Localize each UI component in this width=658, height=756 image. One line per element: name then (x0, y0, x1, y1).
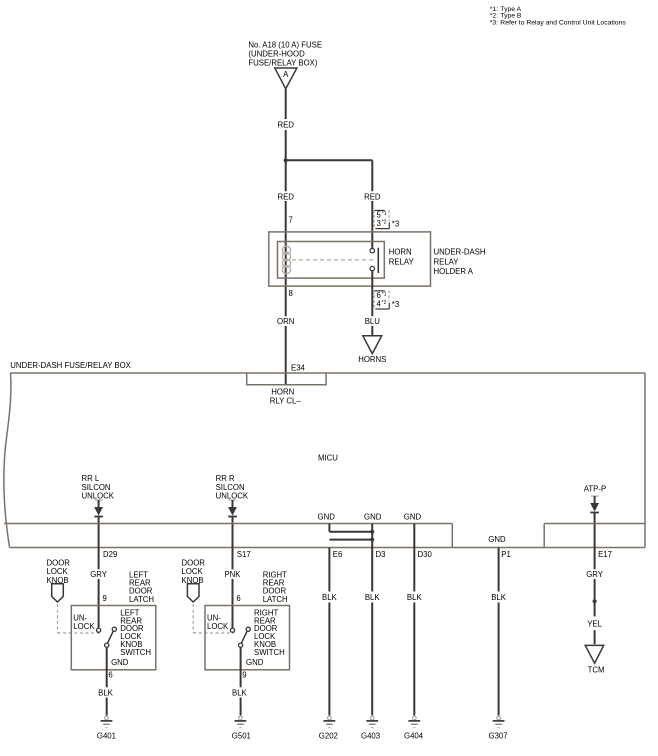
svg-text:G403: G403 (361, 732, 380, 741)
svg-text:TCM: TCM (588, 666, 605, 675)
svg-text:6: 6 (108, 671, 112, 680)
svg-text:D30: D30 (418, 550, 433, 559)
svg-text:RR R: RR R (216, 474, 235, 483)
svg-text:A: A (283, 70, 289, 79)
svg-text:UNLOCK: UNLOCK (82, 492, 115, 501)
svg-text:YEL: YEL (587, 619, 602, 628)
svg-text:LATCH: LATCH (129, 595, 154, 604)
svg-text:6: 6 (236, 594, 240, 603)
svg-text:HORN: HORN (389, 248, 412, 257)
svg-text:SILCON: SILCON (216, 483, 245, 492)
svg-text:RED: RED (277, 120, 294, 129)
svg-text:*3: *3 (392, 300, 399, 309)
svg-text:UNDER-DASH: UNDER-DASH (434, 248, 486, 257)
svg-text:G404: G404 (404, 732, 424, 741)
svg-text:LOCK: LOCK (73, 622, 95, 631)
svg-text:GRY: GRY (90, 570, 108, 579)
svg-text:9: 9 (242, 671, 246, 680)
svg-text:No. A18 (10 A) FUSE: No. A18 (10 A) FUSE (248, 40, 322, 49)
svg-text:GND: GND (488, 535, 506, 544)
svg-text:*2: *2 (382, 220, 387, 226)
svg-text:SWITCH: SWITCH (254, 648, 285, 657)
svg-text:SWITCH: SWITCH (120, 648, 151, 657)
svg-text:ORN: ORN (277, 317, 294, 326)
svg-text:UNDER-DASH FUSE/RELAY BOX: UNDER-DASH FUSE/RELAY BOX (10, 361, 131, 370)
svg-text:8: 8 (289, 289, 293, 298)
svg-text:*2: *2 (382, 300, 387, 306)
svg-text:3: 3 (377, 219, 381, 228)
svg-text:E17: E17 (598, 550, 612, 559)
svg-text:(UNDER-HOOD: (UNDER-HOOD (248, 49, 305, 58)
svg-text:*3: *3 (392, 220, 399, 229)
svg-text:GND: GND (318, 513, 336, 522)
svg-text:BLK: BLK (491, 593, 507, 602)
svg-text:BLK: BLK (322, 593, 338, 602)
svg-text:Refer to Relay and Control Uni: Refer to Relay and Control Unit Location… (500, 19, 626, 26)
svg-text:G401: G401 (97, 732, 116, 741)
svg-text:G202: G202 (319, 732, 338, 741)
svg-text:LOCK: LOCK (182, 567, 204, 576)
svg-text:HORNS: HORNS (358, 355, 386, 364)
svg-text:*1: *1 (382, 211, 387, 217)
svg-text:D29: D29 (103, 550, 117, 559)
svg-text:GND: GND (364, 513, 382, 522)
svg-text:RLY CL–: RLY CL– (270, 397, 302, 406)
svg-text:E34: E34 (291, 363, 306, 372)
svg-text:BLU: BLU (365, 317, 381, 326)
svg-text:*1: *1 (382, 292, 387, 298)
svg-text:GND: GND (111, 658, 129, 667)
svg-text:LATCH: LATCH (263, 595, 288, 604)
svg-text:BLK: BLK (407, 593, 423, 602)
svg-text:D3: D3 (376, 550, 386, 559)
svg-text:4: 4 (377, 299, 382, 308)
svg-text:*3:: *3: (490, 19, 498, 26)
svg-text:E6: E6 (333, 550, 343, 559)
svg-text:MICU: MICU (318, 454, 338, 463)
svg-text:RELAY: RELAY (389, 257, 415, 266)
svg-text:LOCK: LOCK (47, 567, 69, 576)
svg-text:UNLOCK: UNLOCK (216, 492, 249, 501)
svg-text:BLK: BLK (365, 593, 381, 602)
svg-text:GRY: GRY (586, 570, 604, 579)
svg-text:DOOR: DOOR (47, 558, 71, 567)
svg-text:FUSE/RELAY BOX): FUSE/RELAY BOX) (248, 58, 317, 67)
svg-text:7: 7 (289, 216, 293, 225)
svg-text:GND: GND (404, 513, 422, 522)
svg-text:G501: G501 (232, 732, 251, 741)
svg-text:HOLDER A: HOLDER A (434, 267, 474, 276)
svg-text:DOOR: DOOR (182, 558, 206, 567)
svg-text:UN-: UN- (73, 613, 87, 622)
svg-text:G307: G307 (489, 732, 508, 741)
svg-text:P1: P1 (501, 550, 511, 559)
svg-text:RED: RED (277, 192, 294, 201)
svg-text:BLK: BLK (232, 689, 248, 698)
svg-text:RED: RED (364, 192, 381, 201)
svg-text:HORN: HORN (271, 388, 294, 397)
svg-text:SILCON: SILCON (82, 483, 111, 492)
svg-text:S17: S17 (237, 550, 251, 559)
svg-text:UN-: UN- (207, 613, 221, 622)
svg-text:LOCK: LOCK (207, 622, 229, 631)
svg-text:ATP-P: ATP-P (584, 485, 606, 494)
svg-text:PNK: PNK (224, 570, 241, 579)
svg-text:9: 9 (103, 594, 107, 603)
svg-text:GND: GND (246, 658, 264, 667)
svg-text:BLK: BLK (98, 689, 114, 698)
svg-text:RELAY: RELAY (434, 257, 460, 266)
svg-text:RR L: RR L (82, 474, 100, 483)
